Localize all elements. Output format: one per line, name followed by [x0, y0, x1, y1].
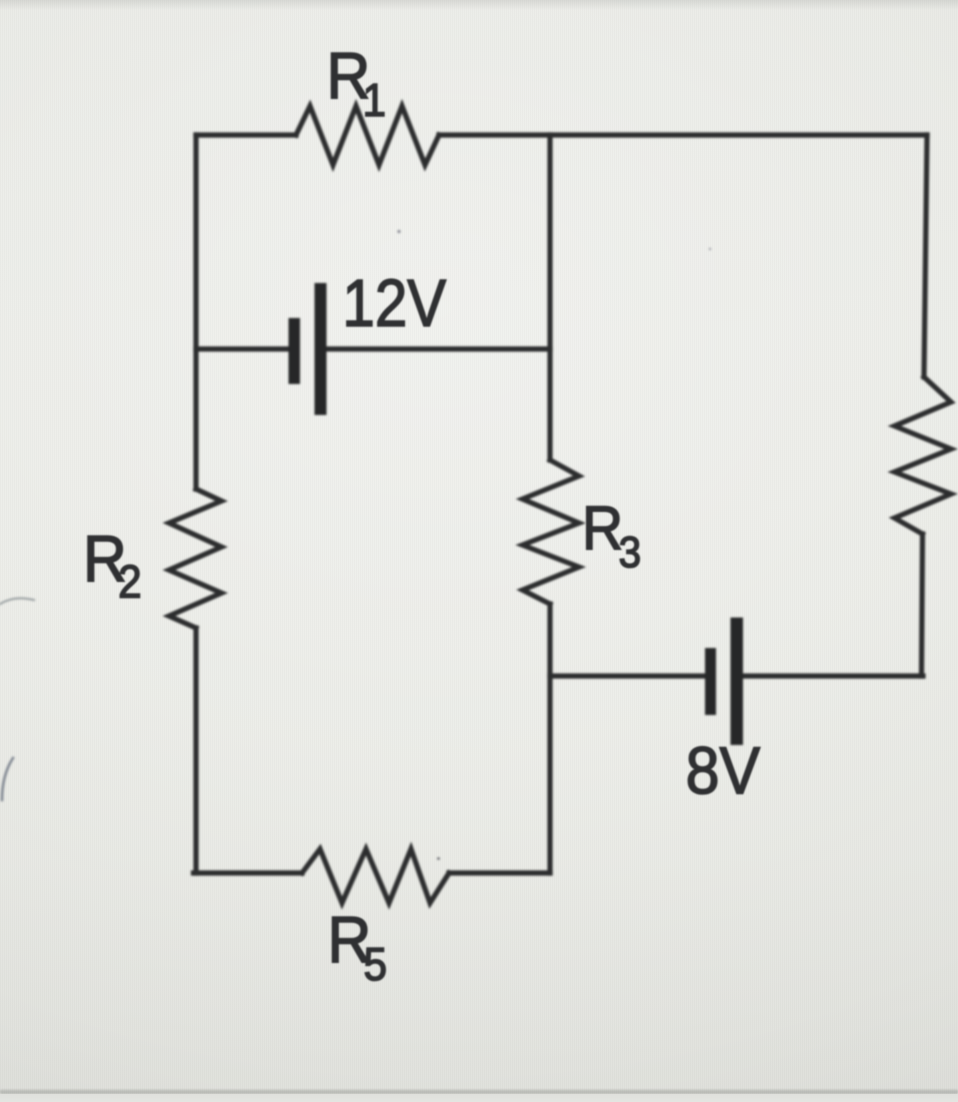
resistor R2 — [169, 489, 222, 628]
wire top-left segment — [196, 132, 296, 137]
battery B1 12V negative plate — [289, 318, 301, 384]
svg-text:R5: R5 — [328, 904, 388, 990]
battery B2 8V positive plate — [731, 618, 744, 746]
wire 8V right — [742, 673, 923, 678]
battery B1 12V positive plate — [315, 283, 327, 415]
resistor R3 — [523, 460, 580, 604]
resistor R1 — [296, 106, 439, 165]
resistor R5 — [302, 849, 449, 903]
svg-text:R3: R3 — [582, 493, 641, 576]
wire left vertical upper — [193, 135, 198, 489]
wire bottom-right segment — [449, 870, 550, 875]
svg-text:8V: 8V — [686, 733, 761, 808]
wire top-right segment — [439, 132, 927, 137]
wire 8V left — [550, 673, 706, 678]
wire middle vertical lower — [547, 604, 552, 873]
wire right vertical lower — [922, 534, 923, 676]
wire 12V right — [324, 346, 550, 351]
battery B2 8V negative plate — [705, 648, 716, 715]
wire middle vertical upper — [547, 135, 552, 460]
wire right vertical upper — [924, 135, 927, 377]
wire 12V left — [196, 346, 290, 351]
wire left vertical lower — [193, 628, 198, 873]
wire bottom-left segment — [194, 870, 303, 875]
svg-text:12V: 12V — [342, 266, 446, 341]
resistor R4 (unlabeled in figure, right branch) — [895, 377, 952, 534]
svg-text:R2: R2 — [83, 523, 142, 608]
